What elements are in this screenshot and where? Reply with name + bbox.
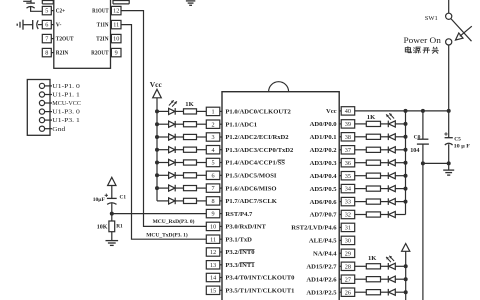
LED row 38 — [387, 134, 389, 141]
J1 pin 6 circle — [39, 126, 44, 131]
capacitor C0 104 — [417, 138, 428, 140]
svg-text:27: 27 — [345, 276, 351, 283]
U2 pin 9 box — [111, 48, 121, 56]
node bus-left row 7 — [155, 186, 159, 190]
wire LED to bus row 38 — [395, 136, 405, 138]
svg-text:8: 8 — [45, 50, 48, 57]
MCU U1 body — [222, 92, 339, 300]
MCU pin 30 stub — [339, 239, 341, 241]
svg-text:P1.4/ADC4/CCP1/SS: P1.4/ADC4/CCP1/SS — [225, 160, 285, 167]
MCU pin 14 box — [206, 273, 220, 281]
wire LED to resistor row 7 — [175, 187, 183, 189]
svg-text:6: 6 — [212, 172, 215, 179]
wire SW1 to Vcc rail — [448, 45, 450, 111]
MCU pin 33 stub — [339, 201, 341, 203]
MCU pin 6 box — [206, 171, 220, 179]
wire pin 35 stub to resistor — [355, 175, 367, 177]
svg-text:P3.0/RxD/INT: P3.0/RxD/INT — [225, 224, 266, 231]
wire resistor to pin 4 — [197, 149, 207, 151]
node bus-lower row 28 — [404, 264, 408, 268]
J1 pin 5 lead — [45, 119, 52, 121]
svg-text:R1OUT: R1OUT — [92, 9, 109, 15]
wire LED to resistor row 6 — [175, 174, 183, 176]
svg-text:P1.1/ADC1: P1.1/ADC1 — [225, 121, 257, 128]
svg-text:P1.7/ADC7/SCLK: P1.7/ADC7/SCLK — [225, 198, 277, 205]
resistor 1K row 1 — [184, 109, 197, 114]
wire C5 tap — [448, 111, 450, 138]
resistor 1K row 27 — [366, 277, 380, 282]
node bus-left row 6 — [155, 173, 159, 177]
svg-text:6: 6 — [45, 22, 48, 29]
svg-text:V-: V- — [56, 23, 62, 29]
svg-text:MCU_RxD(P3. 0): MCU_RxD(P3. 0) — [153, 218, 195, 225]
MCU pin 35 box — [341, 172, 355, 180]
LED row 28 — [387, 263, 389, 270]
switch SW1 bottom contact — [446, 39, 452, 45]
svg-text:9: 9 — [212, 211, 215, 218]
ground (top middle) — [186, 0, 195, 2]
wire pin 39 stub to resistor — [355, 123, 367, 125]
svg-text:AD2/P0.2: AD2/P0.2 — [310, 147, 338, 154]
wire C1 to node — [111, 203, 113, 221]
node bus-lower row 27 — [404, 277, 408, 281]
resistor 1K row 28 — [366, 264, 380, 269]
svg-text:SW1: SW1 — [425, 15, 438, 22]
MCU pin 1 stub — [220, 110, 222, 112]
svg-text:R1: R1 — [116, 224, 123, 230]
wire LED to resistor row 2 — [175, 123, 183, 125]
MCU pin 15 box — [206, 286, 220, 294]
svg-text:P3.4/T0/INT/CLKOUT0: P3.4/T0/INT/CLKOUT0 — [225, 275, 295, 282]
U2 pin 7 box — [42, 34, 51, 42]
svg-text:P1.0/ADC0/CLKOUT2: P1.0/ADC0/CLKOUT2 — [225, 109, 291, 116]
svg-text:AD1/P0.1: AD1/P0.1 — [310, 134, 337, 141]
MCU pin 13 box — [206, 261, 220, 269]
node bus-right row 38 — [404, 135, 408, 139]
MCU pin 8 stub — [220, 200, 222, 202]
svg-text:5: 5 — [212, 160, 215, 167]
J1 pin 3 lead — [45, 102, 52, 104]
wire resistor to pin 8 — [197, 200, 207, 202]
MCU pin 8 box — [206, 197, 220, 205]
resistor R1 10K — [109, 221, 115, 232]
MCU pin 26 box — [341, 288, 355, 296]
wire pin 33 stub to resistor — [355, 201, 367, 203]
MCU pin 3 stub — [220, 136, 222, 138]
MCU pin 38 stub — [339, 136, 341, 138]
MCU pin 32 box — [341, 210, 355, 218]
connector J1 body — [27, 80, 50, 136]
svg-text:30: 30 — [345, 238, 351, 245]
MCU pin 15 stub — [220, 289, 222, 291]
capacitor C4 at U2 pin6 V- — [32, 20, 34, 29]
svg-text:12: 12 — [113, 8, 119, 15]
MCU pin 1 box — [206, 107, 220, 115]
capacitor C3 at U2 pin5 C2+ — [23, 0, 31, 2]
MCU pin 2 stub — [220, 123, 222, 125]
MCU pin 7 box — [206, 184, 220, 192]
Vcc symbol (reset) — [108, 177, 116, 185]
wire LED to resistor row 3 — [175, 136, 183, 138]
LED row 39 — [387, 121, 389, 128]
svg-text:7: 7 — [45, 36, 48, 43]
wire C4 to left ground — [23, 24, 32, 26]
svg-text:U1-P1. 0: U1-P1. 0 — [52, 83, 80, 90]
wire LED to bus row 26 — [395, 291, 405, 293]
svg-text:MCU-VCC: MCU-VCC — [52, 100, 81, 107]
svg-text:P3.5/T1/INT/CLKOUT1: P3.5/T1/INT/CLKOUT1 — [225, 288, 294, 295]
wire resistor to LED row 36 — [381, 162, 389, 164]
svg-text:11: 11 — [113, 22, 119, 29]
wire LED to resistor row 8 — [175, 200, 183, 202]
wire LED to bus row 35 — [395, 175, 405, 177]
wire LED to bus row 32 — [395, 214, 405, 216]
wire LED to bus row 28 — [395, 265, 405, 267]
MCU pin 29 box — [341, 249, 355, 257]
wire LED bus (right upper) — [405, 111, 407, 215]
wire bus to LED row 7 — [157, 187, 169, 189]
MCU pin 12 stub — [220, 251, 222, 253]
LED row 32 — [387, 211, 389, 218]
MCU pin 36 stub — [339, 162, 341, 164]
svg-text:31: 31 — [345, 225, 351, 232]
wire resistor to LED row 26 — [381, 291, 389, 293]
resistor 1K row 33 — [366, 199, 380, 204]
LED D3 — [169, 134, 175, 140]
MCU pin 36 box — [341, 159, 355, 167]
MCU pin 35 stub — [339, 175, 341, 177]
ground (left of C4, bars point left) — [22, 20, 24, 30]
J1 pin 4 circle — [39, 109, 44, 114]
svg-text:P1.5/ADC5/MOSI: P1.5/ADC5/MOSI — [225, 173, 277, 180]
wire LED to resistor row 4 — [175, 149, 183, 151]
svg-text:U1-P3. 0: U1-P3. 0 — [52, 109, 80, 116]
svg-text:8: 8 — [212, 198, 215, 205]
LED row 27 — [387, 276, 389, 283]
wire U2 pin12 R1OUT to MCU pin10 RxD — [121, 11, 206, 227]
MCU pin 39 box — [341, 120, 355, 128]
svg-text:4: 4 — [212, 147, 215, 154]
wire resistor to LED row 32 — [381, 214, 389, 216]
MCU pin 26 stub — [339, 291, 341, 293]
MCU pin 29 stub — [339, 252, 341, 254]
MCU pin 40 stub — [339, 110, 341, 112]
svg-text:T2OUT: T2OUT — [56, 37, 74, 43]
svg-text:32: 32 — [345, 212, 351, 219]
wire pin 34 stub to resistor — [355, 188, 367, 190]
node bus-left row 5 — [155, 161, 159, 165]
capacitor C5 polarity + — [444, 133, 447, 135]
wire Vcc rail from pin 40 — [355, 110, 449, 112]
svg-text:C1: C1 — [120, 195, 127, 201]
LED D2 — [169, 121, 175, 127]
node bus-right row 35 — [404, 174, 408, 178]
capacitor C1 10uF polarity + — [105, 194, 108, 196]
MCU pin 5 box — [206, 158, 220, 166]
resistor 1K row 39 — [366, 121, 380, 126]
wire pin 38 stub to resistor — [355, 136, 367, 138]
U2 pin 12 box — [111, 6, 121, 14]
svg-text:Gnd: Gnd — [52, 126, 66, 133]
svg-text:AD4/P0.4: AD4/P0.4 — [310, 173, 338, 180]
MCU pin 7 stub — [220, 187, 222, 189]
wire bus to LED row 3 — [157, 136, 169, 138]
svg-text:28: 28 — [345, 263, 351, 270]
wire LED to bus row 33 — [395, 201, 405, 203]
svg-text:34: 34 — [345, 186, 351, 193]
wire resistor to LED row 37 — [381, 149, 389, 151]
U2 pin 4 wire loop (cut off at top) — [41, 0, 43, 4]
svg-text:13: 13 — [210, 262, 216, 269]
MCU pin 14 stub — [220, 277, 222, 279]
svg-text:36: 36 — [345, 160, 351, 167]
wire resistor to LED row 33 — [381, 201, 389, 203]
wire pin 32 stub to resistor — [355, 214, 367, 216]
resistor 1K row 3 — [184, 134, 197, 139]
node bus-right row 36 — [404, 161, 408, 165]
MCU pin 33 box — [341, 197, 355, 205]
node bus-right row 37 — [404, 148, 408, 152]
label dianyuan kaiguan (power switch, drawn strokes) — [405, 46, 438, 53]
wire pin 26 stub to resistor — [355, 291, 367, 293]
MCU pin 31 box — [341, 223, 355, 231]
wire LED to resistor row 1 — [175, 110, 183, 112]
svg-text:104: 104 — [410, 147, 419, 154]
Vcc symbol (right lower) — [402, 244, 410, 252]
ground (near C5) — [443, 169, 454, 171]
wire bus to LED row 2 — [157, 123, 169, 125]
J1 pin 2 lead — [45, 94, 52, 96]
resistor 1K row 36 — [366, 160, 380, 165]
svg-text:AD13/P2.5: AD13/P2.5 — [306, 289, 337, 296]
svg-text:T2IN: T2IN — [96, 37, 109, 43]
MCU pin 9 stub — [220, 213, 222, 215]
J1 pin 1 circle — [39, 83, 44, 88]
MCU pin 34 stub — [339, 188, 341, 190]
resistor 1K row 6 — [184, 173, 197, 178]
svg-text:MCU_TxD(P3. 1): MCU_TxD(P3. 1) — [146, 232, 188, 239]
MCU pin 5 stub — [220, 162, 222, 164]
U2 pin 10 box — [111, 34, 121, 42]
resistor 1K row 2 — [184, 122, 197, 127]
wire LED to bus row 39 — [395, 123, 405, 125]
resistor 1K row 8 — [184, 198, 197, 203]
svg-text:T1IN: T1IN — [97, 23, 110, 29]
svg-text:15: 15 — [210, 287, 216, 294]
op-amp U2 MAX232 body — [54, 0, 111, 68]
svg-text:1K: 1K — [185, 101, 194, 108]
resistor 1K row 34 — [366, 186, 380, 191]
svg-text:R2OUT: R2OUT — [91, 51, 109, 57]
wire ground net down — [422, 163, 424, 300]
LED emission arrows (row 39) — [389, 113, 394, 118]
node bus-left row 3 — [155, 135, 159, 139]
LED row 35 — [387, 172, 389, 179]
J1 pin 6 lead — [45, 128, 52, 130]
wire Vcc to C1 — [111, 186, 113, 199]
wire resistor to pin 5 — [197, 162, 207, 164]
svg-text:9: 9 — [115, 50, 118, 57]
svg-text:10μF: 10μF — [93, 197, 106, 203]
svg-text:ALE/P4.5: ALE/P4.5 — [309, 238, 337, 245]
svg-text:29: 29 — [345, 250, 351, 257]
switch SW1 actuator arrow — [460, 26, 472, 36]
node bus-left row 4 — [155, 148, 159, 152]
LED D1 — [169, 108, 175, 114]
wire bus to LED row 8 — [157, 200, 169, 202]
MCU pin 10 box — [206, 222, 220, 230]
svg-text:40: 40 — [345, 108, 351, 115]
wire resistor to pin 3 — [197, 136, 207, 138]
svg-text:AD15/P2.7: AD15/P2.7 — [306, 264, 337, 271]
wire bus to LED row 4 — [157, 149, 169, 151]
wire LED bus (right lower) — [405, 251, 407, 300]
MCU pin 11 box — [206, 235, 220, 243]
LED emission arrows (row 28) — [389, 256, 394, 261]
MCU pin 12 box — [206, 248, 220, 256]
MCU pin 34 box — [341, 184, 355, 192]
wire pin 27 stub to resistor — [355, 278, 367, 280]
svg-text:AD7/P0.7: AD7/P0.7 — [310, 212, 338, 219]
wire C5 to ground node — [448, 144, 450, 163]
MCU pin 4 box — [206, 146, 220, 154]
switch SW1 top contact — [446, 13, 452, 19]
U2 pin 5 box — [42, 6, 51, 14]
svg-text:10: 10 — [113, 36, 119, 43]
svg-text:RST/P4.7: RST/P4.7 — [225, 211, 253, 218]
svg-text:14: 14 — [210, 275, 216, 282]
LED D4 — [169, 147, 175, 153]
node rail/LED bus — [404, 109, 408, 113]
node bus-right row 34 — [404, 187, 408, 191]
MCU pin 32 stub — [339, 214, 341, 216]
svg-text:P3.3/INT1: P3.3/INT1 — [225, 262, 254, 269]
wire LED to bus row 27 — [395, 278, 405, 280]
svg-text:C5: C5 — [454, 137, 461, 143]
LED D8 — [169, 198, 175, 204]
MCU pin 10 stub — [220, 225, 222, 227]
svg-text:1K: 1K — [368, 255, 377, 262]
wire Vcc bus (left) — [156, 98, 158, 201]
resistor 1K row 26 — [366, 290, 380, 295]
wire R1 to ground — [111, 232, 113, 241]
resistor 1K row 32 — [366, 212, 380, 217]
svg-text:2: 2 — [212, 121, 215, 128]
svg-text:11: 11 — [210, 236, 216, 243]
wire resistor to LED row 35 — [381, 175, 389, 177]
wire pin 36 stub to resistor — [355, 162, 367, 164]
MCU pin 11 stub — [220, 238, 222, 240]
wire bus to LED row 5 — [157, 162, 169, 164]
svg-text:Power On: Power On — [404, 36, 441, 45]
wire resistor to pin 1 — [197, 110, 207, 112]
node bus-left row 2 — [155, 122, 159, 126]
resistor 1K row 38 — [366, 134, 380, 139]
MCU pin 9 box — [206, 209, 220, 217]
node C5/gnd — [447, 161, 451, 165]
svg-text:3: 3 — [212, 134, 215, 141]
svg-text:P1.3/ADC3/CCP0/TxD2: P1.3/ADC3/CCP0/TxD2 — [225, 147, 294, 154]
LED row 37 — [387, 147, 389, 154]
wire resistor to LED row 39 — [381, 123, 389, 125]
wire C0 bottom to ground node — [423, 144, 449, 163]
svg-text:U1-P1. 1: U1-P1. 1 — [52, 92, 80, 99]
MCU pin 6 stub — [220, 174, 222, 176]
svg-text:1K: 1K — [367, 114, 376, 121]
node rail/C0 — [421, 109, 425, 113]
wire resistor to LED row 28 — [381, 265, 389, 267]
J1 pin 3 circle — [39, 100, 44, 105]
svg-text:AD5/P0.5: AD5/P0.5 — [310, 186, 338, 193]
wire resistor to LED row 27 — [381, 278, 389, 280]
wire U2 pin11 T1IN to MCU pin11 TxD — [121, 25, 206, 240]
svg-text:C2+: C2+ — [56, 9, 66, 15]
svg-text:C0: C0 — [414, 134, 421, 140]
capacitor C5 plates — [445, 137, 453, 139]
MCU pin 30 box — [341, 236, 355, 244]
node bus-lower row 26 — [404, 290, 408, 294]
LED row 34 — [387, 185, 389, 192]
MCU pin 2 box — [206, 120, 220, 128]
wire LED to resistor row 5 — [175, 162, 183, 164]
wire resistor to pin 6 — [197, 174, 207, 176]
svg-text:5: 5 — [45, 8, 48, 15]
LED row 26 — [387, 289, 389, 296]
svg-text:U1-P3. 1: U1-P3. 1 — [52, 117, 80, 124]
U2 pin 6 box — [42, 20, 51, 28]
MCU pin 38 box — [341, 133, 355, 141]
wire LED to bus row 36 — [395, 162, 405, 164]
MCU pin 28 stub — [339, 265, 341, 267]
wire from top edge to SW1 — [448, 0, 450, 13]
svg-text:10 μ F: 10 μ F — [454, 143, 471, 149]
svg-text:37: 37 — [345, 147, 351, 154]
LED D5 — [169, 159, 175, 165]
svg-text:10: 10 — [210, 224, 216, 231]
svg-text:10K: 10K — [97, 225, 108, 231]
svg-text:RST2/LVD/P4.6: RST2/LVD/P4.6 — [291, 225, 337, 232]
resistor 1K row 5 — [184, 160, 197, 165]
svg-text:NA/P4.4: NA/P4.4 — [313, 251, 337, 258]
wire C0 tap — [422, 111, 424, 139]
MCU pin 37 stub — [339, 149, 341, 151]
node reset junction — [110, 212, 114, 216]
wire C3 to pin5 — [31, 7, 43, 11]
resistor 1K row 37 — [366, 147, 380, 152]
J1 pin 4 lead — [45, 111, 52, 113]
svg-text:P3.1/TxD: P3.1/TxD — [225, 236, 252, 243]
wire resistor to LED row 38 — [381, 136, 389, 138]
svg-text:7: 7 — [212, 185, 215, 192]
svg-text:P3.2/INT0: P3.2/INT0 — [225, 249, 255, 256]
switch SW1 blade — [451, 19, 472, 42]
LED row 33 — [387, 198, 389, 205]
node bus-right row 33 — [404, 200, 408, 204]
LED D1 emission arrows — [169, 100, 174, 105]
wire bus to LED row 1 — [157, 110, 169, 112]
wire LED to bus row 37 — [395, 149, 405, 151]
MCU pin 27 box — [341, 275, 355, 283]
svg-text:R2IN: R2IN — [56, 51, 69, 57]
svg-text:AD0/P0.0: AD0/P0.0 — [310, 121, 338, 128]
wire resistor to pin 7 — [197, 187, 207, 189]
node bus-right row 39 — [404, 122, 408, 126]
wire node to MCU pin9 RST — [112, 213, 207, 215]
svg-text:12: 12 — [210, 249, 216, 256]
svg-text:39: 39 — [345, 121, 351, 128]
wire resistor to LED row 34 — [381, 188, 389, 190]
LED D6 — [169, 172, 175, 178]
